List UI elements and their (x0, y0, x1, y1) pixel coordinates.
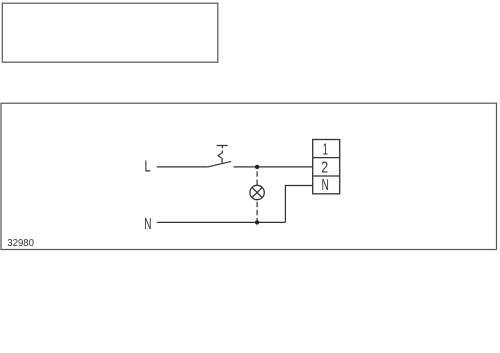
svg-text:1: 1 (323, 140, 328, 158)
svg-text:2: 2 (321, 158, 328, 176)
svg-text:32980: 32980 (7, 238, 34, 249)
svg-text:N: N (144, 215, 151, 233)
svg-text:L: L (144, 157, 151, 175)
svg-text:N: N (322, 176, 329, 194)
